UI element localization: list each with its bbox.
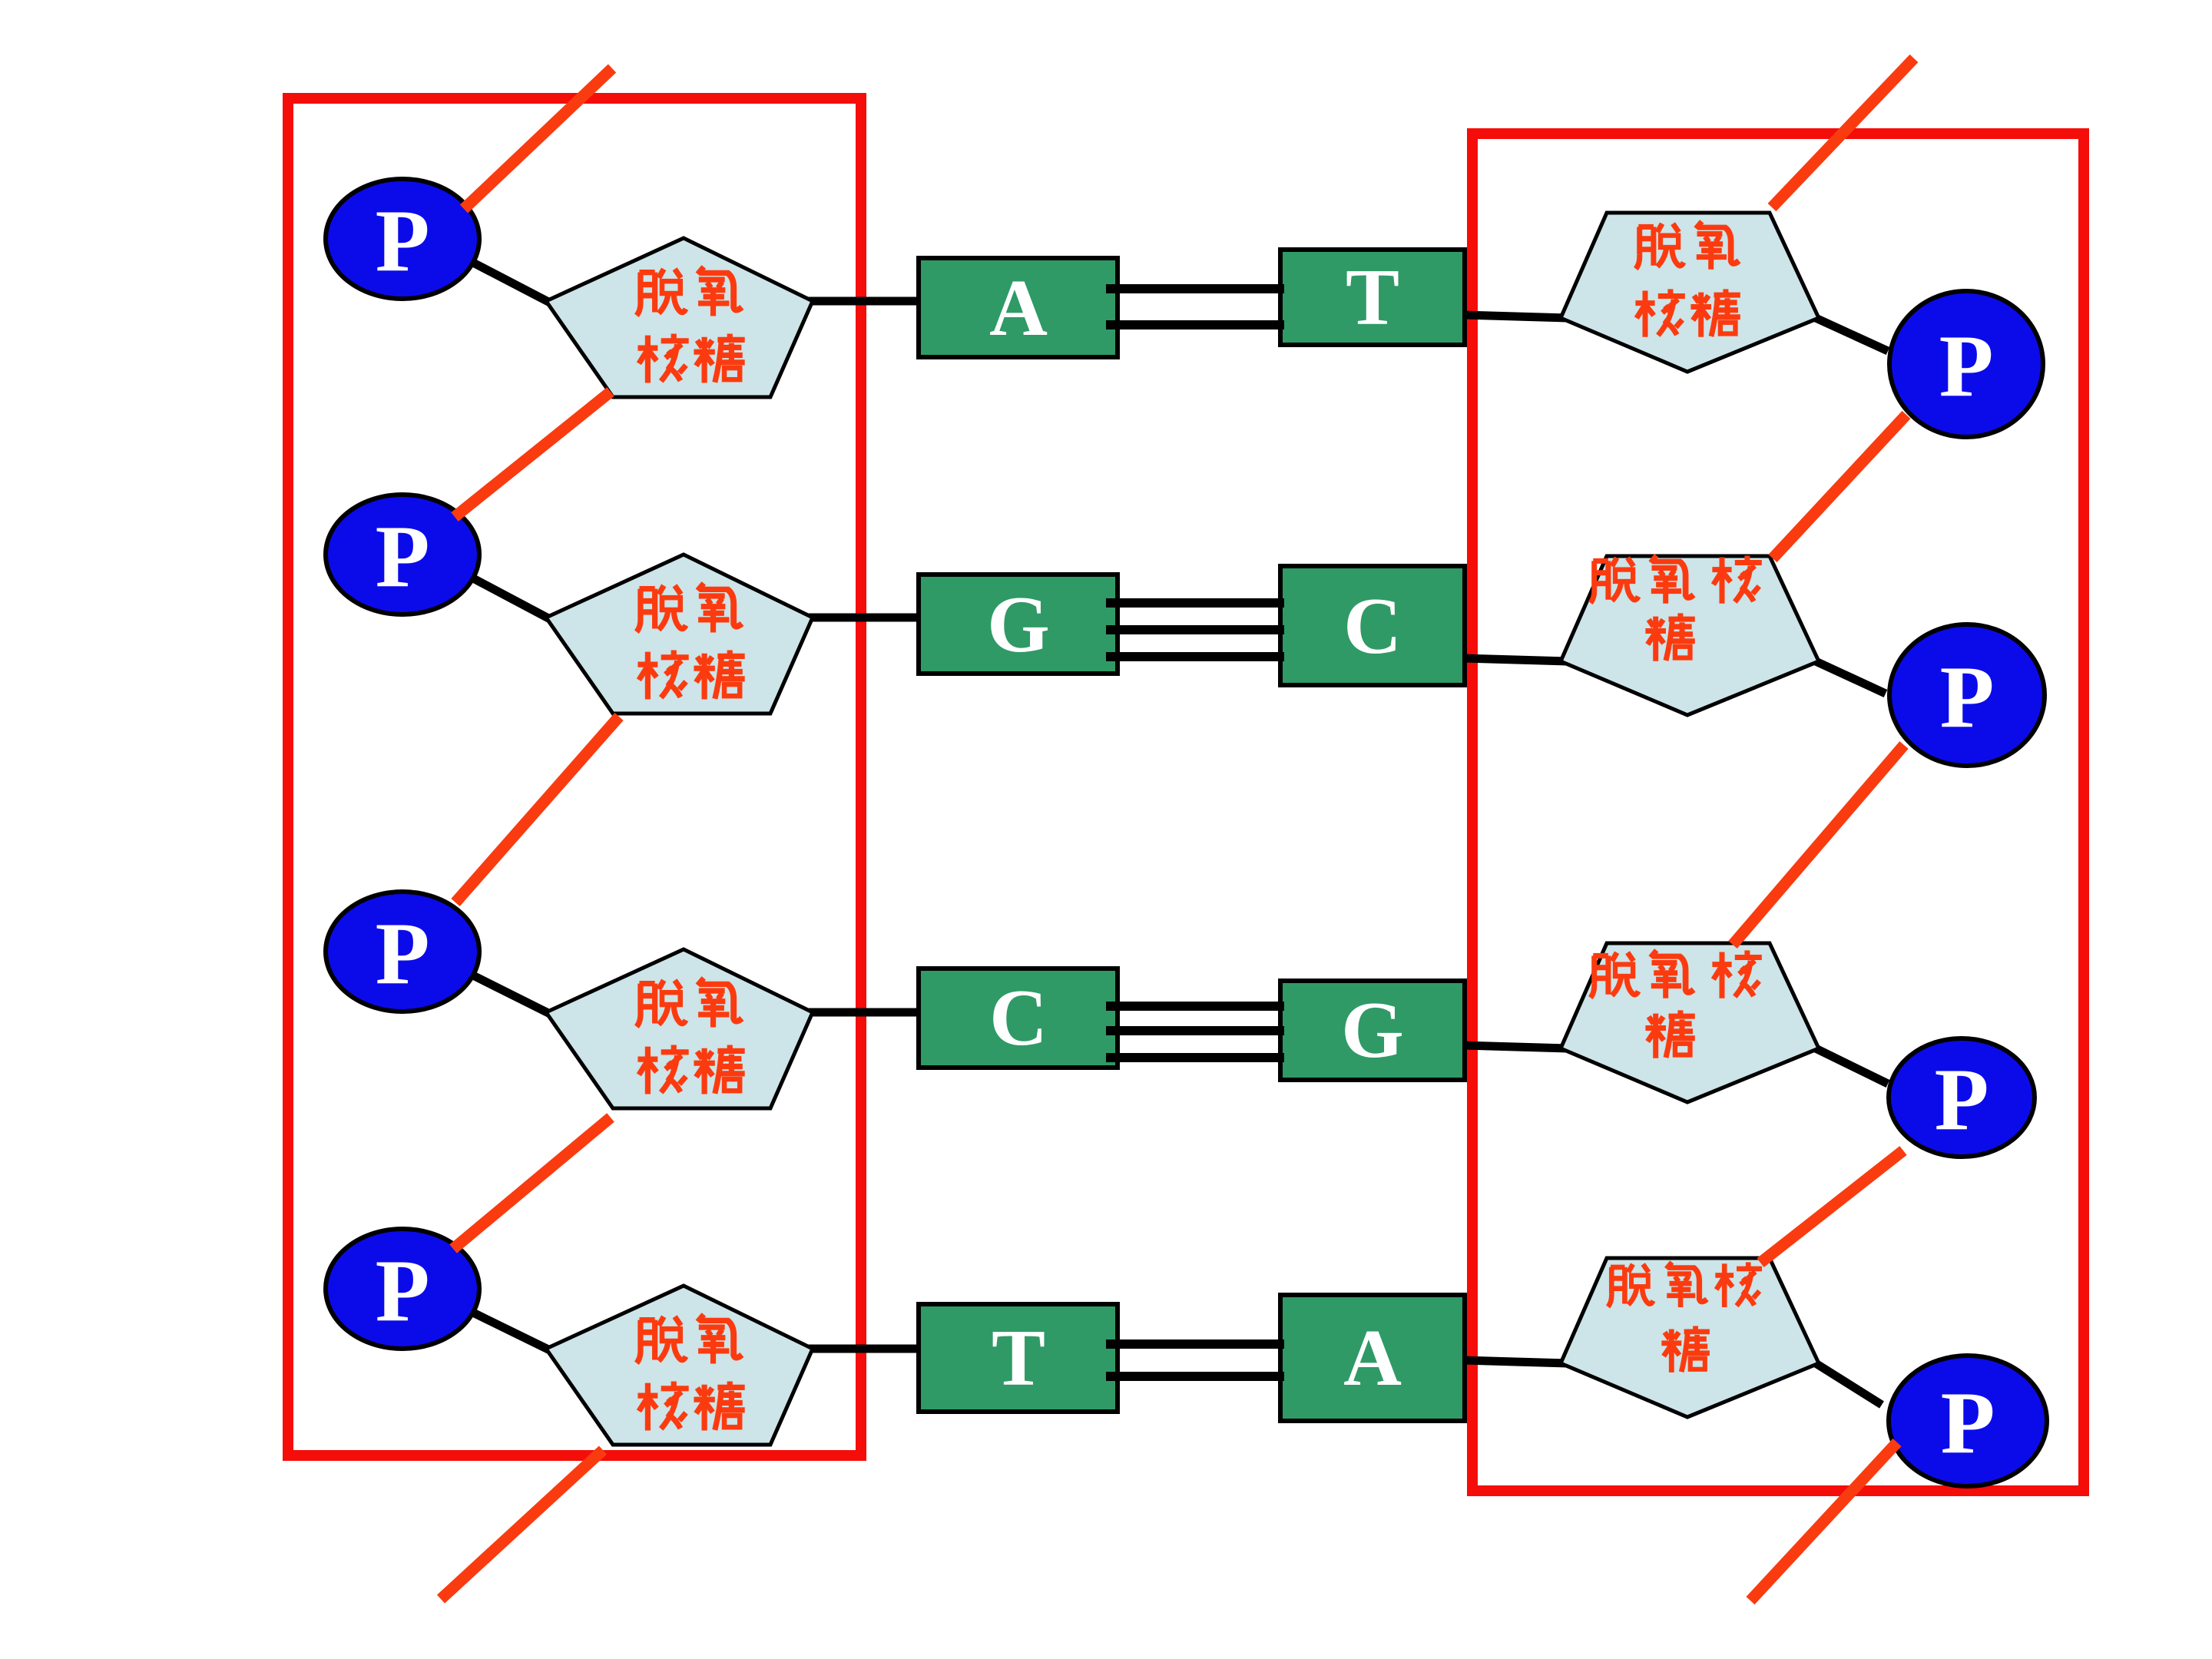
svg-text:C: C — [989, 972, 1048, 1062]
label 脱氧核糖 deoxyribose (left strand row 4) — [637, 1316, 686, 1363]
right strand top diagonal — [1772, 58, 1914, 207]
wire hydrogen bond 1 of pair A=T (row 1) — [1106, 284, 1284, 293]
label 脱氧核糖 deoxyribose (right strand row 2) — [1591, 558, 1638, 603]
wire hydrogen bond 2 of pair C≡G (row 3) — [1106, 1026, 1284, 1035]
left strand bottom diagonal — [441, 1450, 603, 1599]
svg-text:P: P — [376, 1242, 430, 1340]
svg-text:C: C — [1343, 581, 1402, 671]
deoxyribose sugar pentagon (right strand row 1) — [1561, 213, 1819, 372]
base C box (right strand row 2) — [1280, 566, 1465, 685]
wire hydrogen bond 3 of pair C≡G (row 3) — [1106, 1053, 1284, 1062]
svg-text:P: P — [1941, 1374, 1995, 1472]
wire sugar-base bond (left strand row 2) — [805, 614, 926, 622]
svg-text:G: G — [1341, 985, 1404, 1075]
svg-text:P: P — [376, 192, 430, 290]
base T box (left strand row 4) — [919, 1304, 1118, 1412]
phosphate P circle (left strand row 4) — [326, 1229, 479, 1349]
right strand bottom diagonal — [1750, 1442, 1897, 1601]
left strand diagonal row1-row2 — [455, 392, 611, 517]
svg-text:T: T — [1346, 252, 1399, 342]
wire sugar-base bond (left strand row 3) — [805, 1008, 926, 1017]
base T box (right strand row 1) — [1280, 250, 1465, 345]
base A box (right strand row 4) — [1280, 1295, 1465, 1421]
wire hydrogen bond 2 of pair T=A (row 4) — [1106, 1372, 1284, 1381]
left strand diagonal row3-row4 — [453, 1118, 611, 1249]
svg-text:G: G — [987, 579, 1050, 669]
base A box (left strand row 1) — [919, 258, 1118, 357]
label 脱氧核糖 deoxyribose (left strand row 3) — [637, 980, 686, 1026]
phosphate P circle (left strand row 2) — [326, 495, 479, 614]
wire sugar-P bond (right strand row 3) — [1816, 1048, 1888, 1084]
wire hydrogen bond 3 of pair G≡C (row 2) — [1106, 652, 1284, 661]
phosphate P circle (right strand row 3) — [1889, 1038, 2035, 1157]
phosphate P circle (right strand row 2) — [1889, 624, 2045, 766]
base G box (left strand row 2) — [919, 575, 1118, 674]
left strand red rectangle — [288, 98, 861, 1455]
deoxyribose sugar pentagon (left strand row 1) — [546, 238, 813, 397]
label 脱氧核糖 deoxyribose (right strand row 1) — [1636, 224, 1684, 269]
label 脱氧核糖 deoxyribose (left strand row 2) — [637, 585, 686, 631]
wire sugar-P bond (right strand row 4) — [1816, 1363, 1882, 1405]
wire hydrogen bond 2 of pair G≡C (row 2) — [1106, 625, 1284, 634]
wire base-sugar bond (right strand row 4) — [1462, 1360, 1567, 1363]
left strand top diagonal — [464, 68, 612, 209]
wire P3-sugar bond (left strand row 3) — [475, 976, 550, 1014]
wire P4-sugar bond (left strand row 4) — [475, 1313, 550, 1350]
svg-text:P: P — [1939, 317, 1994, 416]
wire hydrogen bond 1 of pair T=A (row 4) — [1106, 1339, 1284, 1349]
right strand diagonal row2-row3 — [1733, 745, 1904, 945]
label 脱氧核糖 deoxyribose (right strand row 3) — [1591, 952, 1638, 998]
phosphate P circle (right strand row 1) — [1889, 291, 2043, 437]
wire base-sugar bond (right strand row 2) — [1462, 658, 1567, 661]
right strand red rectangle — [1472, 134, 2084, 1491]
right strand diagonal row3-row4 — [1760, 1151, 1903, 1263]
label 脱氧核糖 deoxyribose (left strand row 1) — [637, 269, 686, 315]
phosphate P circle (right strand row 4) — [1889, 1356, 2047, 1486]
deoxyribose sugar pentagon (right strand row 4) — [1561, 1258, 1819, 1417]
svg-text:P: P — [1935, 1051, 1989, 1149]
wire sugar-P bond (right strand row 1) — [1816, 318, 1888, 351]
phosphate P circle (left strand row 1) — [326, 179, 479, 299]
wire P1-sugar bond (left strand row 1) — [475, 263, 550, 303]
deoxyribose sugar pentagon (right strand row 3) — [1561, 943, 1819, 1102]
right strand diagonal row1-row2 — [1773, 415, 1906, 558]
phosphate P circle (left strand row 3) — [326, 892, 479, 1012]
left strand diagonal row2-row3 — [455, 717, 619, 902]
wire base-sugar bond (right strand row 3) — [1462, 1045, 1567, 1048]
wire hydrogen bond 1 of pair G≡C (row 2) — [1106, 598, 1284, 608]
svg-text:P: P — [376, 508, 430, 606]
svg-text:P: P — [1940, 648, 1995, 747]
wire base-sugar bond (right strand row 1) — [1462, 315, 1567, 318]
label 脱氧核糖 deoxyribose (right strand row 4) — [1608, 1264, 1654, 1306]
base C box (left strand row 3) — [919, 969, 1118, 1068]
svg-text:A: A — [989, 263, 1048, 353]
deoxyribose sugar pentagon (right strand row 2) — [1561, 556, 1819, 715]
deoxyribose sugar pentagon (left strand row 4) — [546, 1286, 813, 1445]
svg-text:T: T — [992, 1313, 1045, 1402]
svg-text:P: P — [376, 905, 430, 1003]
deoxyribose sugar pentagon (left strand row 3) — [546, 949, 813, 1108]
wire sugar-P bond (right strand row 2) — [1816, 661, 1886, 694]
svg-text:A: A — [1343, 1313, 1402, 1402]
wire hydrogen bond 1 of pair C≡G (row 3) — [1106, 1002, 1284, 1011]
deoxyribose sugar pentagon (left strand row 2) — [546, 555, 813, 714]
wire sugar-base bond (left strand row 1) — [805, 297, 926, 306]
wire hydrogen bond 2 of pair A=T (row 1) — [1106, 320, 1284, 329]
base G box (right strand row 3) — [1280, 981, 1465, 1080]
wire P2-sugar bond (left strand row 2) — [475, 579, 550, 619]
wire sugar-base bond (left strand row 4) — [805, 1345, 926, 1353]
